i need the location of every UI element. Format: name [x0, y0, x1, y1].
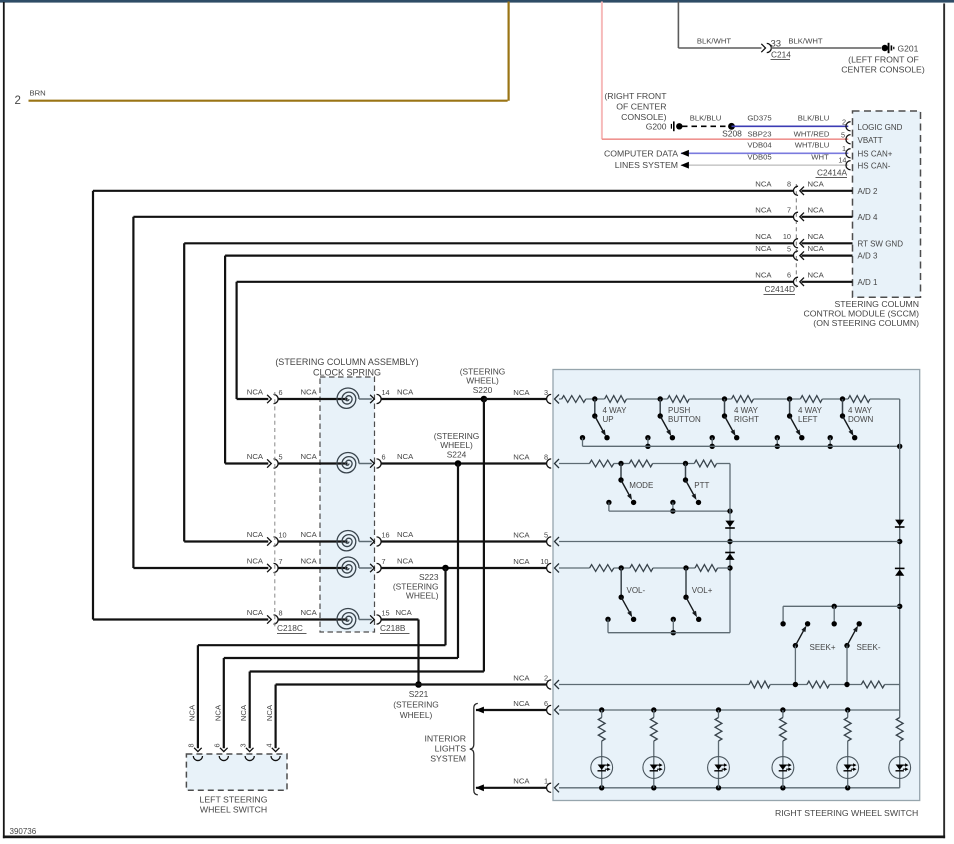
- svg-text:1: 1: [842, 144, 846, 153]
- svg-text:(STEERING: (STEERING: [393, 700, 439, 710]
- ground G201: [882, 43, 919, 54]
- svg-text:2: 2: [842, 117, 846, 126]
- resistor vol R2: [630, 565, 653, 572]
- LED lamp 2 with resistor: [643, 707, 665, 790]
- label right steering wheel switch: [775, 808, 918, 818]
- svg-text:8: 8: [279, 609, 283, 618]
- connector C218B pin 15: [370, 609, 390, 624]
- svg-text:WHEEL): WHEEL): [400, 710, 433, 720]
- svg-text:NCA: NCA: [513, 388, 530, 397]
- wire row 5 coil to C218B: [359, 619, 372, 621]
- svg-text:NCA: NCA: [513, 673, 530, 682]
- label left steering wheel switch: [200, 795, 268, 815]
- label NCA pin2 row: [513, 673, 530, 682]
- label NCA row2 box: [513, 453, 530, 462]
- resistor seek R3: [861, 681, 884, 688]
- svg-text:NCA: NCA: [247, 452, 264, 461]
- splice S223: [442, 565, 449, 572]
- svg-text:LEFT: LEFT: [798, 415, 818, 424]
- pin 3 internal chevron: [555, 395, 560, 404]
- svg-text:VOL-: VOL-: [627, 586, 646, 595]
- resistor mode R3: [694, 460, 716, 467]
- svg-text:SYSTEM: SYSTEM: [430, 754, 466, 764]
- label NCA row3 box: [513, 531, 530, 540]
- pin 6 internal chevron: [555, 706, 560, 715]
- wire S220 vertical: [483, 399, 485, 672]
- label S221: [393, 689, 439, 720]
- svg-text:GD375: GD375: [747, 114, 771, 123]
- pin 8 internal chevron: [555, 459, 560, 468]
- wire right box pin 1 to interior lights: [476, 784, 547, 791]
- resistor 4way R2: [605, 396, 627, 403]
- label interior lights system: [424, 734, 466, 764]
- svg-text:2: 2: [15, 95, 21, 107]
- wire S224 horizontal to column 2: [224, 657, 458, 659]
- svg-text:5: 5: [841, 130, 845, 139]
- label WHT/BLU: [795, 141, 830, 150]
- wire seek left drop: [780, 606, 785, 626]
- wire S223 horizontal to column 1: [198, 644, 446, 646]
- svg-text:S224: S224: [447, 449, 467, 459]
- svg-text:S208: S208: [722, 129, 742, 139]
- wire right box pin 6 to interior lights: [476, 707, 547, 714]
- svg-text:C214: C214: [771, 50, 791, 60]
- svg-text:4: 4: [264, 743, 273, 747]
- svg-text:C218C: C218C: [277, 623, 303, 633]
- switch VOL-: [605, 565, 645, 632]
- wire NCA RT SW GND horizontal: [184, 242, 794, 244]
- wire row5 C218B to corner: [381, 618, 419, 620]
- pin 1 right box lower: [544, 777, 551, 793]
- svg-text:COMPUTER DATA: COMPUTER DATA: [604, 148, 678, 158]
- svg-text:INTERIOR: INTERIOR: [424, 734, 466, 744]
- svg-text:6: 6: [213, 743, 222, 747]
- label BRN: [30, 89, 46, 98]
- wire seek mid drop: [832, 604, 837, 627]
- svg-text:WHT: WHT: [811, 153, 829, 162]
- junction VR row5: [897, 539, 902, 544]
- svg-text:4 WAY: 4 WAY: [603, 406, 628, 415]
- svg-text:(ON STEERING COLUMN): (ON STEERING COLUMN): [813, 318, 919, 328]
- svg-text:NCA: NCA: [808, 270, 825, 279]
- label NCA right RT SW GND: [808, 232, 825, 241]
- wire row A seg4: [754, 398, 801, 400]
- label NCA row4 right: [397, 557, 414, 566]
- switch SEEK+: [793, 621, 836, 684]
- svg-text:NCA: NCA: [755, 179, 772, 188]
- connector C218C pin 10: [267, 531, 287, 546]
- wire row 3 coil to C218B: [359, 541, 372, 543]
- svg-text:NCA: NCA: [808, 179, 825, 188]
- wire BRN horizontal: [29, 100, 508, 102]
- label NCA column pin 6: [213, 704, 222, 721]
- switch 4 WAY DOWN: [828, 396, 874, 449]
- svg-text:WHEEL SWITCH: WHEEL SWITCH: [200, 804, 267, 814]
- svg-text:NCA: NCA: [513, 557, 530, 566]
- wire S224 vertical: [457, 464, 459, 659]
- connector C218B pin 14: [370, 388, 390, 403]
- svg-text:LEFT STEERING: LEFT STEERING: [200, 795, 268, 805]
- resistor mode R2: [629, 460, 652, 467]
- connector C218B pin 7: [370, 557, 385, 572]
- module SCCM box: [853, 111, 921, 297]
- label NCA row 2 left2: [301, 452, 318, 461]
- pin 5 VBATT: [841, 130, 851, 144]
- wire row1 C218B to S220: [381, 398, 484, 400]
- svg-text:CONSOLE): CONSOLE): [621, 112, 666, 122]
- pin label VBATT: [858, 136, 883, 145]
- pin 2 right box: [544, 673, 551, 689]
- svg-text:LIGHTS: LIGHTS: [435, 744, 467, 754]
- resistor 4way R5: [800, 396, 822, 403]
- svg-text:NCA: NCA: [187, 704, 196, 721]
- pin 5 internal chevron: [555, 537, 560, 546]
- svg-text:G200: G200: [646, 121, 667, 131]
- connector C218C pin 7: [267, 557, 282, 572]
- svg-text:6: 6: [382, 453, 386, 462]
- wire row A seg3: [689, 398, 731, 400]
- wire clock spring row 4 left: [133, 567, 268, 569]
- label NCA left RT SW GND: [755, 232, 772, 241]
- wire WHT/RED VBATT: [602, 138, 848, 140]
- label BLK/WHT right: [788, 36, 822, 45]
- wire S221 to right box pin 2: [419, 683, 547, 685]
- connector C218B pin 16: [370, 531, 390, 546]
- wire NCA RT SW GND to SCCM: [802, 242, 853, 244]
- svg-text:BLK/WHT: BLK/WHT: [788, 36, 822, 45]
- LED lamp 6 with resistor: [889, 718, 911, 788]
- svg-text:S220: S220: [473, 385, 493, 395]
- svg-text:DOWN: DOWN: [848, 415, 874, 424]
- wire row 2 coil to C218B: [359, 463, 372, 465]
- wire row A seg1: [586, 398, 605, 400]
- connector C2414D line: [795, 184, 797, 288]
- pin 2 internal chevron: [555, 680, 560, 689]
- label NCA row 5 left2: [301, 608, 318, 617]
- svg-text:7: 7: [787, 206, 791, 215]
- label NCA row2 right: [397, 452, 414, 461]
- svg-text:NCA: NCA: [396, 608, 413, 617]
- splice S208: [722, 123, 742, 139]
- svg-text:SBP23: SBP23: [748, 130, 772, 139]
- label S220: [460, 367, 506, 395]
- label NCA row5 right: [396, 608, 413, 617]
- svg-text:PUSH: PUSH: [668, 406, 690, 415]
- clock spring box: [320, 377, 375, 632]
- wire 4way bus: [583, 444, 903, 449]
- connector C218C pin 5: [267, 453, 282, 468]
- svg-text:PTT: PTT: [694, 481, 709, 490]
- pin label RT SW GND: [858, 239, 904, 248]
- splice S220: [481, 396, 488, 403]
- label NCA left A/D 4: [755, 205, 772, 214]
- svg-text:NCA: NCA: [513, 453, 530, 462]
- wire row3 C218B to right box: [381, 540, 547, 542]
- brace interior lights system: [470, 703, 478, 794]
- wire BRN circuit number 2 label: [15, 95, 21, 107]
- resistor mode R1: [590, 460, 614, 467]
- svg-text:4 WAY: 4 WAY: [798, 406, 823, 415]
- wire row E lead-in: [559, 684, 749, 686]
- label NCA row 3 left2: [301, 530, 318, 539]
- wire row B seg1: [614, 463, 630, 465]
- LED lamp 1 with resistor: [591, 707, 613, 790]
- wire row A seg2: [627, 398, 668, 400]
- label G201 location: [841, 54, 925, 74]
- resistor 4way R3: [668, 396, 690, 403]
- svg-text:LOGIC GND: LOGIC GND: [858, 123, 903, 132]
- wire column 3 to left switch pin 3: [249, 672, 251, 749]
- pin label A/D 2: [858, 187, 879, 196]
- svg-text:(LEFT FRONT OF: (LEFT FRONT OF: [848, 54, 919, 64]
- resistor vol R3: [695, 565, 718, 572]
- svg-text:4 WAY: 4 WAY: [848, 406, 873, 415]
- connector C218C pin 6: [267, 388, 282, 403]
- connector C2414D pin 10: [783, 232, 804, 248]
- svg-text:NCA: NCA: [397, 530, 414, 539]
- junction VM row10: [727, 565, 732, 570]
- wire row 1 coil to C218B: [359, 398, 372, 400]
- label NCA pin1 row: [513, 777, 530, 786]
- wire row2 C218B to right box: [381, 462, 547, 464]
- pin 6 left switch: [213, 743, 229, 760]
- pin 3 right box: [544, 388, 551, 404]
- connector C218C label: [277, 623, 307, 633]
- left steering wheel switch box: [186, 754, 287, 790]
- switch PUSH BUTTON: [645, 396, 701, 449]
- svg-text:8: 8: [787, 180, 791, 189]
- label NCA row 3 left1: [247, 530, 264, 539]
- connector C218C pin 8: [267, 609, 282, 624]
- label SCCM name: [803, 299, 919, 328]
- wire row C: [559, 541, 900, 543]
- pin label LOGIC GND: [858, 123, 903, 132]
- svg-text:NCA: NCA: [755, 244, 772, 253]
- svg-text:(STEERING COLUMN ASSEMBLY): (STEERING COLUMN ASSEMBLY): [275, 357, 418, 367]
- label COMPUTER DATA LINES SYSTEM: [604, 148, 678, 170]
- connector C2414D pin 5: [787, 244, 804, 260]
- wire NCA A/D 4 left vertical: [132, 217, 134, 568]
- label NCA column pin 3: [239, 704, 248, 721]
- switch SEEK-: [844, 621, 881, 684]
- svg-text:VOL+: VOL+: [692, 586, 713, 595]
- resistor 4way R1: [562, 396, 586, 403]
- svg-text:(RIGHT FRONT: (RIGHT FRONT: [604, 91, 667, 101]
- pin 4 left switch: [264, 743, 280, 760]
- label NCA row1 box: [513, 388, 530, 397]
- resistor vol R1: [590, 565, 614, 572]
- wire row E seg2: [830, 682, 862, 687]
- wire vol bus: [608, 632, 730, 634]
- junction VR seek bus: [897, 604, 902, 609]
- label NCA right A/D 2: [808, 179, 825, 188]
- label NCA row1 right: [397, 388, 414, 397]
- pin 2 LOGIC GND: [842, 117, 851, 130]
- wire clock spring row 1 left: [237, 398, 269, 400]
- wire row A seg5: [822, 398, 848, 400]
- pin 14 HS CAN-: [838, 156, 850, 170]
- connector C218C dashed line: [274, 392, 276, 628]
- svg-text:NCA: NCA: [397, 452, 414, 461]
- svg-text:C2414A: C2414A: [817, 167, 847, 177]
- wire BLK/WHT horizontal to C214: [678, 47, 761, 49]
- svg-text:14: 14: [838, 156, 846, 165]
- svg-text:NCA: NCA: [755, 270, 772, 279]
- wire NCA A/D 4 to SCCM: [802, 216, 853, 218]
- wire seek bus: [783, 605, 900, 607]
- label NCA row 5 left1: [247, 608, 264, 617]
- svg-text:NCA: NCA: [247, 530, 264, 539]
- splice S221: [415, 681, 422, 688]
- pin 1 HS CAN+: [842, 144, 851, 158]
- wire row E to vertical: [885, 684, 900, 686]
- label NCA row 4 left2: [301, 557, 318, 566]
- svg-text:BLK/BLU: BLK/BLU: [798, 114, 830, 123]
- wire row B to corner: [717, 463, 730, 465]
- svg-text:BRN: BRN: [30, 89, 46, 98]
- svg-text:7: 7: [279, 557, 283, 566]
- pin label A/D 3: [858, 252, 879, 261]
- svg-text:RIGHT STEERING WHEEL SWITCH: RIGHT STEERING WHEEL SWITCH: [775, 808, 918, 818]
- right steering wheel switch box: [553, 370, 920, 801]
- wire row B lead-in: [559, 463, 590, 465]
- wire row D seg1: [614, 567, 630, 569]
- wire row1 S220 to right box: [484, 398, 547, 400]
- connector C2414D label: [764, 284, 796, 294]
- svg-text:NCA: NCA: [301, 452, 318, 461]
- label NCA row 1 left1: [247, 388, 264, 397]
- svg-text:STEERING COLUMN: STEERING COLUMN: [835, 299, 919, 309]
- svg-text:NCA: NCA: [301, 608, 318, 617]
- wire mode/ptt bus: [609, 508, 733, 513]
- resistor 4way R4: [732, 396, 754, 403]
- svg-text:NCA: NCA: [755, 232, 772, 241]
- label SBP23: [748, 130, 772, 139]
- pin 6 right box lower: [544, 699, 551, 715]
- LED lamp 3 with resistor: [708, 707, 730, 790]
- wire row D to vertical: [718, 567, 730, 569]
- wire right internal vertical: [899, 399, 901, 718]
- svg-text:CONTROL MODULE (SCCM): CONTROL MODULE (SCCM): [803, 309, 919, 319]
- wire VDB04 WHT/BLU: [681, 150, 849, 157]
- wire NCA A/D 1 horizontal: [237, 281, 794, 283]
- wire row F: [559, 709, 900, 711]
- svg-text:SEEK+: SEEK+: [810, 643, 836, 652]
- label S223: [393, 572, 439, 600]
- coil clock spring 5: [337, 609, 359, 629]
- wire row4 C218B to right box: [381, 567, 547, 569]
- switch VOL+: [671, 565, 713, 635]
- label BLK/BLU: [798, 114, 830, 123]
- diode D2: [895, 568, 905, 575]
- wire row E seg1: [770, 682, 807, 687]
- wire row 2 into clock spring: [278, 462, 348, 464]
- wire NCA A/D 3 horizontal: [225, 255, 794, 257]
- svg-text:16: 16: [382, 531, 390, 540]
- wire row D seg2: [653, 567, 695, 569]
- svg-text:MODE: MODE: [629, 481, 653, 490]
- connector C2414D pin 8: [787, 180, 804, 196]
- svg-text:CENTER CONSOLE): CENTER CONSOLE): [841, 65, 925, 75]
- label G200 location: [604, 91, 667, 122]
- switch 4 WAY UP: [580, 396, 627, 446]
- wire NCA A/D 1 left vertical: [236, 282, 238, 399]
- pin label A/D 1: [858, 278, 879, 287]
- svg-text:NCA: NCA: [213, 704, 222, 721]
- wire NCA A/D 2 left vertical: [92, 191, 94, 620]
- svg-text:NCA: NCA: [755, 205, 772, 214]
- svg-text:VDB04: VDB04: [747, 141, 772, 150]
- coil clock spring 3: [337, 531, 359, 551]
- wire WHT/RED vertical: [601, 2, 603, 140]
- diode D4: [725, 553, 735, 560]
- svg-text:NCA: NCA: [301, 557, 318, 566]
- svg-text:10: 10: [783, 232, 791, 241]
- svg-text:10: 10: [279, 531, 287, 540]
- svg-text:6: 6: [279, 388, 283, 397]
- label GD375: [747, 114, 771, 123]
- pin 5 right box: [544, 531, 551, 547]
- wire row A seg6: [870, 398, 900, 400]
- svg-text:CLOCK SPRING: CLOCK SPRING: [313, 367, 381, 377]
- svg-text:BUTTON: BUTTON: [668, 415, 701, 424]
- pin label HS CAN-: [858, 161, 891, 170]
- connector C2414D pin 6: [787, 271, 804, 287]
- wire row D lead-in: [559, 567, 590, 569]
- junction VM row5: [727, 539, 732, 544]
- label NCA right A/D 1: [808, 270, 825, 279]
- label NCA row3 right: [397, 530, 414, 539]
- wire NCA RT SW GND left vertical: [183, 243, 185, 541]
- label VDB05: [747, 153, 771, 162]
- wire S223 vertical: [444, 568, 446, 645]
- svg-text:NCA: NCA: [513, 777, 530, 786]
- wire NCA A/D 1 to SCCM: [802, 281, 853, 283]
- svg-text:WHT/BLU: WHT/BLU: [795, 141, 830, 150]
- wire GD375 BLK/BLU: [732, 125, 849, 127]
- wire S221 horizontal to column 4: [276, 683, 419, 685]
- wire clock spring row 5 left: [93, 618, 268, 620]
- wire NCA A/D 3 left vertical: [224, 256, 226, 464]
- svg-text:HS CAN+: HS CAN+: [858, 149, 893, 158]
- wire row 5 into clock spring: [278, 618, 348, 620]
- wire row A lead-in: [559, 398, 562, 400]
- label NCA row 1 left2: [301, 388, 318, 397]
- svg-text:NCA: NCA: [513, 699, 530, 708]
- diode D3: [725, 521, 735, 528]
- svg-text:A/D 2: A/D 2: [858, 187, 879, 196]
- svg-text:14: 14: [382, 388, 390, 397]
- svg-text:NCA: NCA: [513, 531, 530, 540]
- coil clock spring 1: [337, 388, 359, 408]
- svg-text:NCA: NCA: [808, 244, 825, 253]
- svg-text:5: 5: [279, 453, 283, 462]
- wire column 1 to left switch pin 8: [197, 645, 199, 748]
- svg-text:NCA: NCA: [239, 704, 248, 721]
- connector C218B pin 6: [370, 453, 385, 468]
- wire row 4 into clock spring: [278, 567, 348, 569]
- svg-text:A/D 3: A/D 3: [858, 252, 879, 261]
- switch MODE: [606, 461, 653, 511]
- pin 8 right box: [544, 453, 551, 469]
- switch 4 WAY LEFT: [775, 396, 823, 449]
- svg-text:3: 3: [239, 743, 248, 747]
- label BLK/WHT left: [697, 36, 731, 45]
- svg-text:15: 15: [382, 609, 390, 618]
- diode D1: [895, 520, 905, 527]
- wire BLK/WHT to G201: [771, 47, 882, 49]
- coil clock spring 2: [337, 453, 359, 473]
